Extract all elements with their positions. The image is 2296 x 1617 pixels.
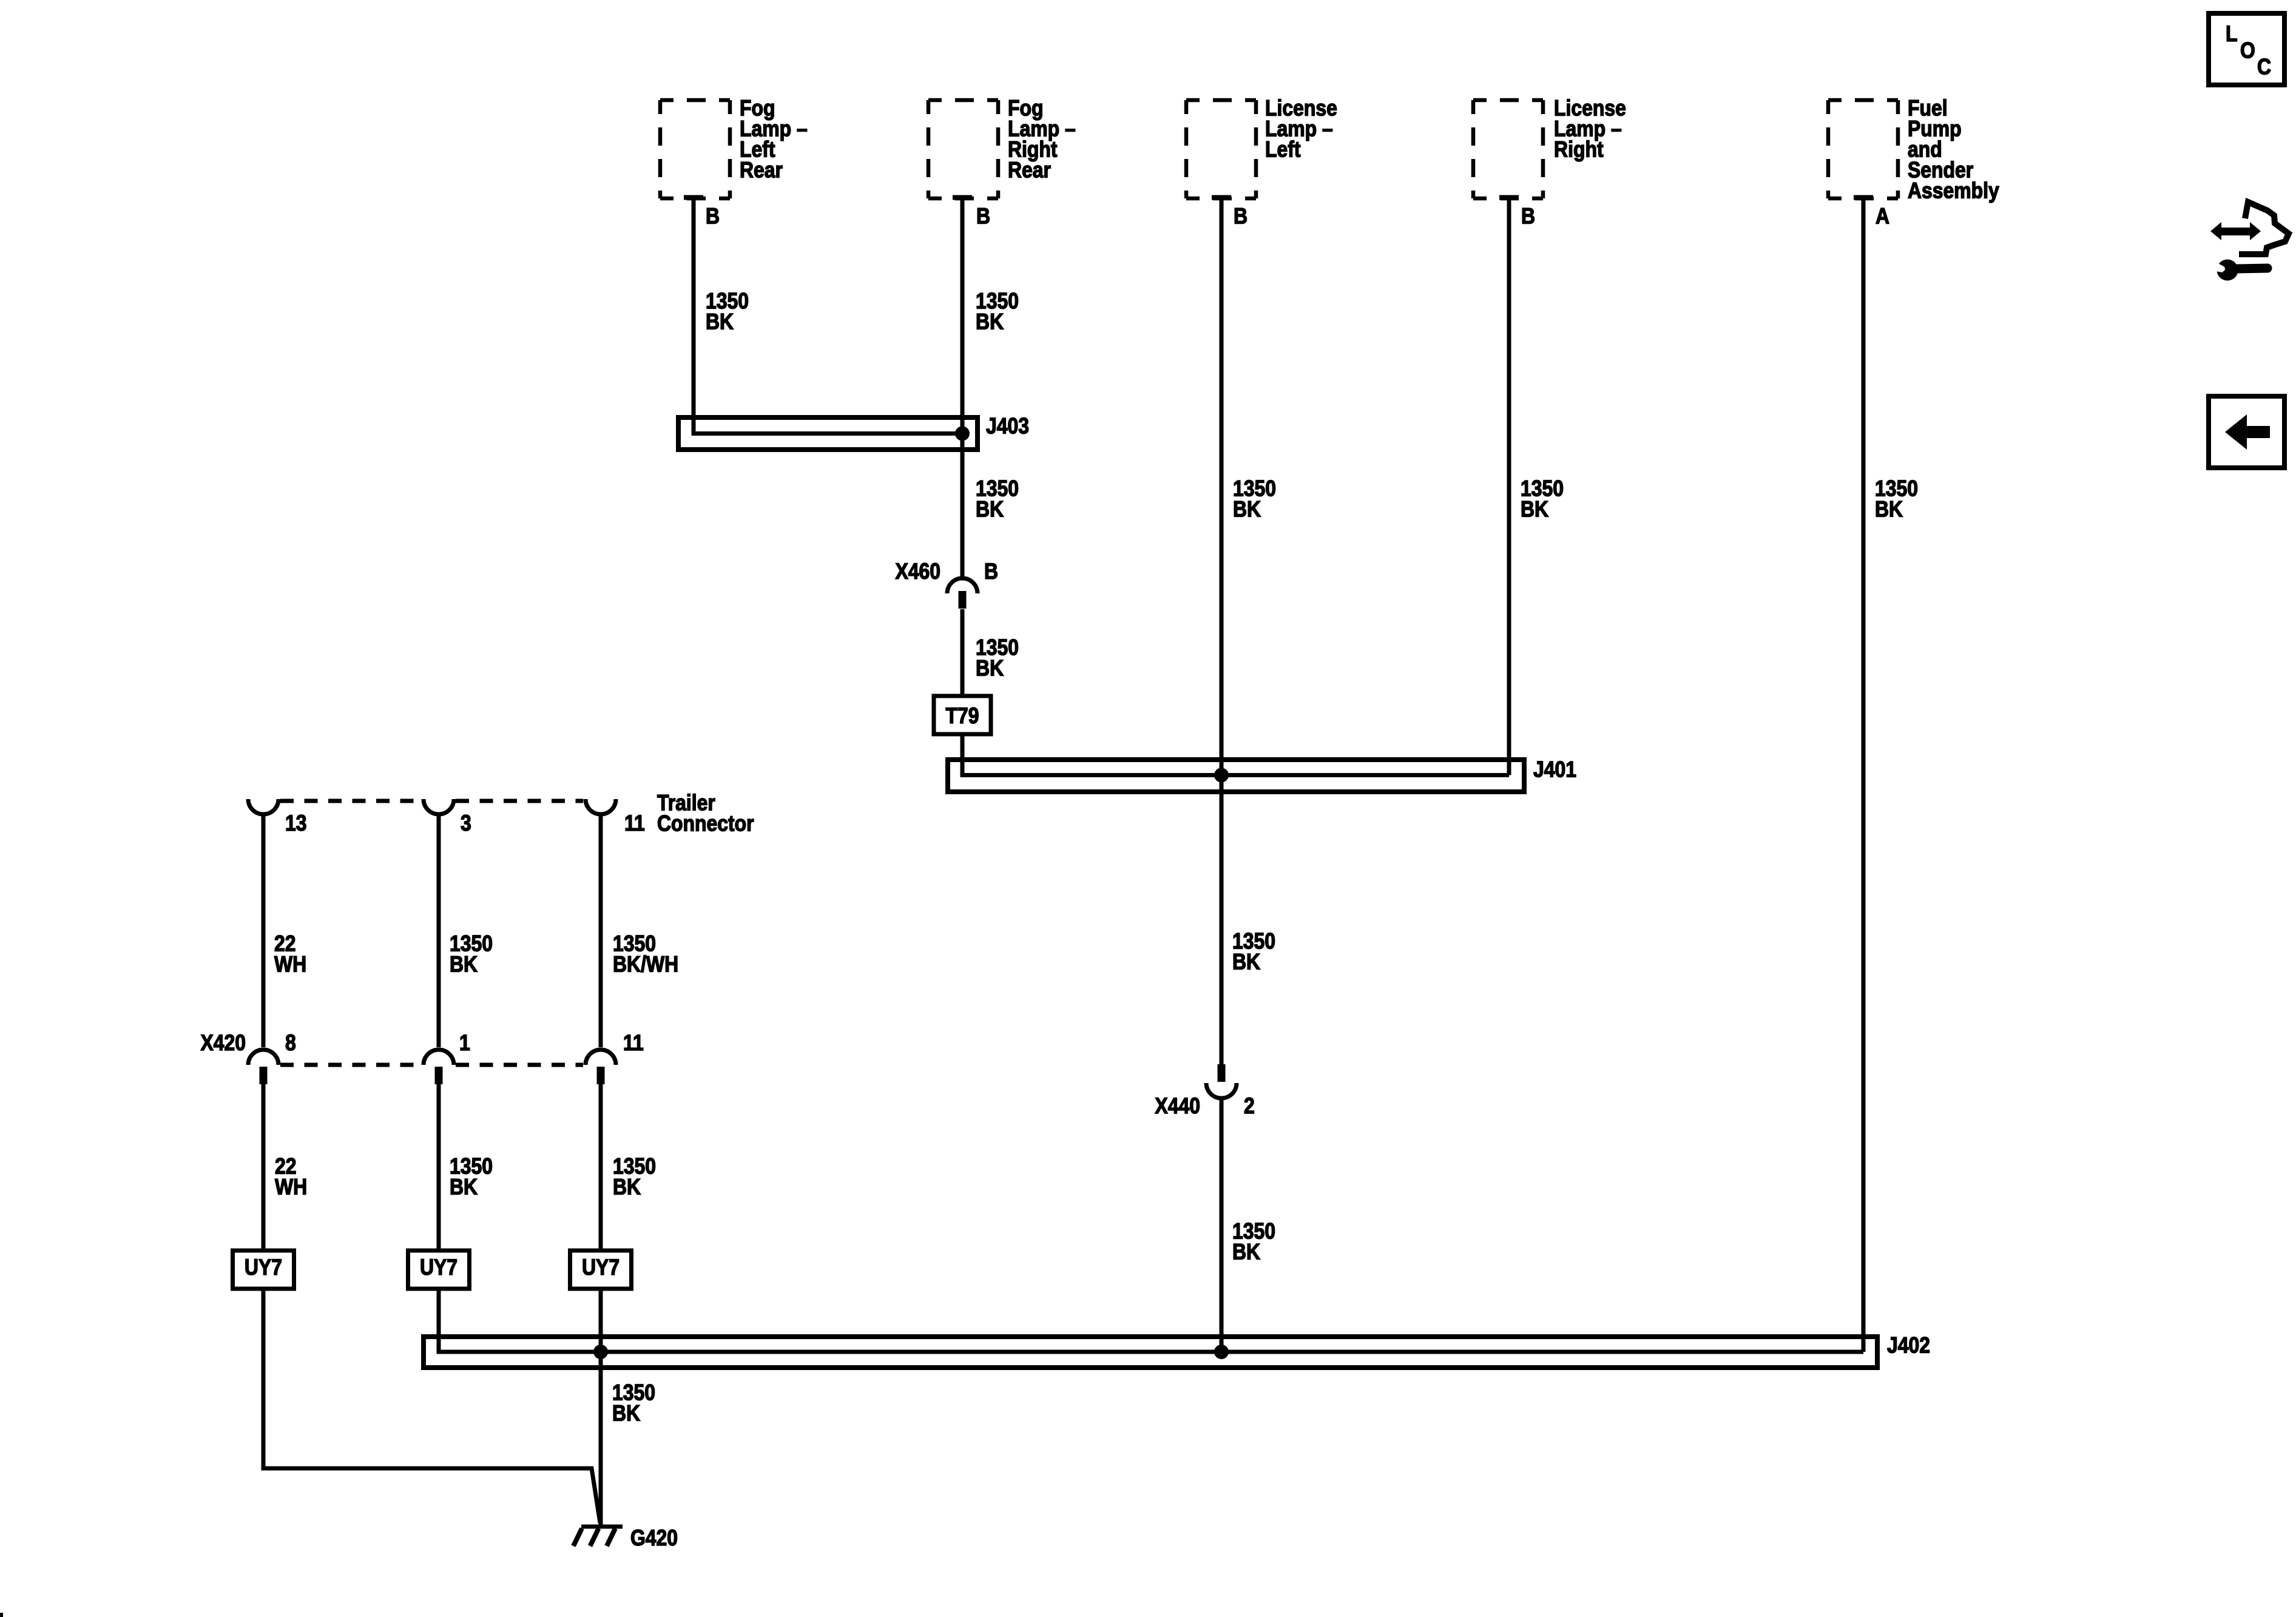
svg-text:B: B	[976, 204, 990, 229]
svg-text:J402: J402	[1887, 1333, 1930, 1358]
svg-text:Connector: Connector	[657, 811, 754, 836]
svg-text:Rear: Rear	[1008, 158, 1051, 183]
svg-text:X420: X420	[200, 1031, 246, 1056]
svg-text:BK: BK	[1233, 497, 1261, 522]
svg-text:BK: BK	[450, 1175, 478, 1200]
svg-text:B: B	[1234, 204, 1248, 229]
svg-text:Assembly: Assembly	[1908, 178, 2000, 203]
svg-text:2: 2	[1244, 1094, 1255, 1119]
svg-text:UY7: UY7	[420, 1255, 458, 1280]
svg-text:BK: BK	[976, 309, 1004, 334]
svg-text:BK: BK	[450, 952, 478, 977]
svg-text:Right: Right	[1554, 137, 1604, 162]
svg-text:BK/WH: BK/WH	[613, 952, 678, 977]
svg-text:BK: BK	[706, 309, 734, 334]
svg-text:A: A	[1876, 204, 1889, 229]
svg-text:BK: BK	[1232, 950, 1260, 974]
svg-text:O: O	[2240, 38, 2255, 63]
svg-text:BK: BK	[976, 497, 1004, 522]
svg-text:J403: J403	[986, 414, 1029, 439]
svg-text:BK: BK	[1875, 497, 1903, 522]
svg-text:BK: BK	[1521, 497, 1548, 522]
svg-text:WH: WH	[275, 1175, 307, 1200]
svg-text:L: L	[2226, 22, 2238, 47]
svg-text:Left: Left	[1265, 137, 1301, 162]
svg-text:BK: BK	[1232, 1240, 1260, 1264]
svg-text:1: 1	[459, 1031, 470, 1056]
svg-text:BK: BK	[612, 1401, 640, 1426]
svg-text:3: 3	[461, 811, 471, 836]
svg-text:8: 8	[285, 1031, 296, 1056]
svg-text:UY7: UY7	[582, 1255, 620, 1280]
svg-text:C: C	[2257, 55, 2271, 79]
svg-text:B: B	[706, 204, 720, 229]
svg-text:13: 13	[285, 811, 307, 836]
svg-text:Rear: Rear	[740, 158, 783, 183]
svg-text:WH: WH	[274, 952, 306, 977]
svg-text:T79: T79	[946, 704, 979, 729]
svg-text:X460: X460	[895, 559, 940, 584]
svg-text:X440: X440	[1155, 1094, 1200, 1119]
svg-text:G420: G420	[630, 1526, 678, 1551]
svg-text:11: 11	[623, 1031, 644, 1056]
svg-text:B: B	[984, 559, 998, 584]
svg-text:11: 11	[624, 811, 645, 836]
svg-text:B: B	[1521, 204, 1535, 229]
svg-text:BK: BK	[976, 656, 1004, 681]
svg-text:J401: J401	[1533, 757, 1576, 782]
svg-text:UY7: UY7	[245, 1255, 282, 1280]
svg-text:BK: BK	[613, 1175, 641, 1200]
